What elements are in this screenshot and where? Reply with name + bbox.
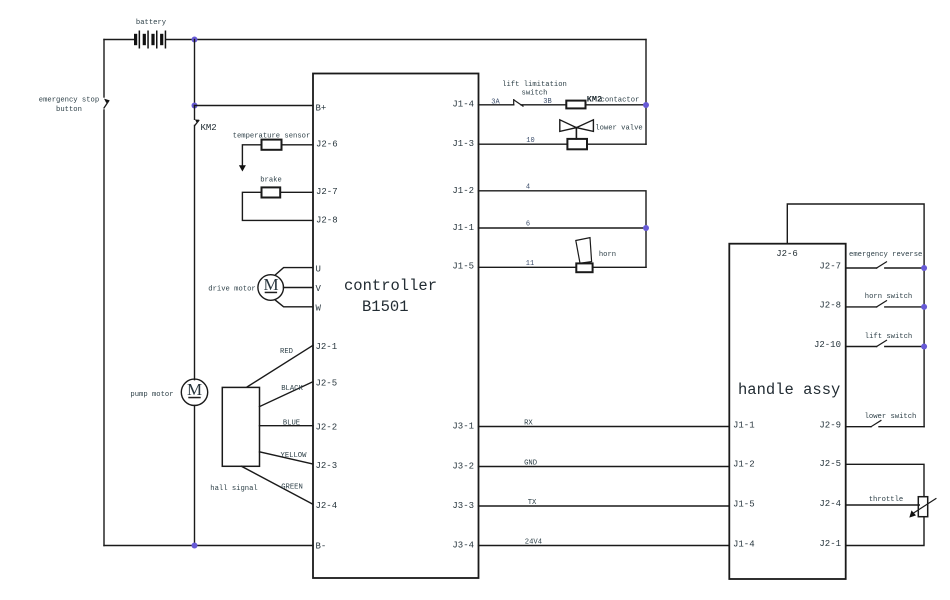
svg-text:lift limitation: lift limitation: [502, 81, 567, 89]
svg-text:J2-1: J2-1: [316, 342, 338, 352]
svg-text:J2-5: J2-5: [819, 459, 841, 469]
emergency stop button: [104, 99, 109, 546]
handle right pin labels: [814, 262, 841, 550]
svg-text:J1-5: J1-5: [733, 499, 755, 509]
wire J3-1 RX: [479, 426, 730, 428]
wire: right rail top: [645, 40, 647, 145]
wire RED: [247, 345, 313, 387]
svg-text:B1501: B1501: [362, 298, 409, 316]
wire BLUE: [260, 425, 314, 427]
hall signal box: [222, 387, 259, 466]
svg-text:hall signal: hall signal: [210, 485, 257, 493]
battery: [104, 31, 195, 49]
svg-text:J2-10: J2-10: [814, 340, 841, 350]
svg-text:BLACK: BLACK: [281, 385, 303, 393]
horn switch: [846, 301, 924, 307]
drive motor: [258, 268, 313, 307]
wire GREEN: [242, 466, 314, 504]
svg-text:horn switch: horn switch: [865, 293, 912, 301]
svg-text:M: M: [263, 275, 278, 294]
svg-text:B+: B+: [316, 104, 327, 114]
throttle wiper arrowhead: [909, 510, 916, 517]
svg-text:10: 10: [526, 137, 534, 145]
wire: top rail battery to right: [195, 39, 647, 41]
svg-text:6: 6: [526, 221, 530, 229]
lower valve: [479, 120, 647, 149]
svg-text:emergency stop: emergency stop: [39, 97, 99, 105]
node: [921, 344, 927, 350]
svg-text:J1-2: J1-2: [733, 459, 755, 469]
svg-text:pump motor: pump motor: [130, 391, 173, 399]
svg-text:switch: switch: [522, 90, 548, 98]
wire: B+ to controller: [195, 105, 314, 107]
throttle: [846, 464, 936, 545]
svg-text:lower valve: lower valve: [595, 125, 642, 133]
svg-text:J2-6: J2-6: [316, 139, 338, 149]
svg-text:J1-4: J1-4: [452, 99, 474, 109]
KM2 contactor label: [587, 95, 640, 105]
svg-text:J3-1: J3-1: [452, 421, 474, 431]
svg-text:4: 4: [526, 184, 530, 192]
svg-text:lower switch: lower switch: [865, 413, 917, 421]
svg-text:handle assy: handle assy: [738, 381, 840, 399]
svg-text:KM2: KM2: [201, 123, 217, 133]
svg-text:J1-1: J1-1: [452, 223, 474, 233]
svg-text:U: U: [316, 265, 321, 275]
svg-text:J2-6: J2-6: [776, 249, 798, 259]
svg-text:GND: GND: [524, 460, 537, 468]
svg-text:TX: TX: [528, 499, 537, 507]
svg-text:lift switch: lift switch: [865, 333, 912, 341]
svg-text:J2-7: J2-7: [316, 187, 338, 197]
svg-text:J2-1: J2-1: [819, 539, 841, 549]
svg-text:3A: 3A: [491, 98, 500, 106]
svg-text:B-: B-: [316, 541, 327, 551]
node: B+ junction: [192, 103, 198, 109]
wire J1-1: [479, 227, 647, 229]
controller U1 box: [313, 74, 479, 579]
svg-text:J2-4: J2-4: [819, 499, 841, 509]
wire: B- bottom rail: [104, 545, 313, 547]
node: B- junction: [192, 543, 198, 549]
svg-text:battery: battery: [136, 19, 167, 27]
svg-text:V: V: [316, 284, 322, 294]
svg-text:J3-3: J3-3: [452, 501, 474, 511]
svg-text:J3-4: J3-4: [452, 540, 474, 550]
wire: handle top loop: [787, 204, 924, 427]
temperature sensor R: [242, 140, 313, 166]
wire J3-4 24V4: [479, 545, 730, 547]
arrow down: [239, 165, 246, 171]
svg-text:brake: brake: [260, 177, 282, 185]
controller left pin labels: [316, 104, 338, 552]
wire YELLOW: [260, 452, 314, 464]
svg-text:11: 11: [526, 260, 534, 268]
svg-text:J2-9: J2-9: [819, 420, 841, 430]
svg-text:J2-5: J2-5: [316, 379, 338, 389]
handle left pin labels: [733, 420, 755, 549]
svg-text:throttle: throttle: [869, 496, 904, 504]
wire BLACK: [260, 382, 314, 407]
node: [921, 265, 927, 271]
svg-text:YELLOW: YELLOW: [281, 452, 308, 460]
handle assy box: [729, 244, 845, 579]
svg-text:drive motor: drive motor: [208, 286, 255, 294]
emergency stop button label: [39, 97, 99, 115]
node: battery junction: [192, 37, 198, 43]
svg-text:J1-1: J1-1: [733, 420, 755, 430]
svg-text:RX: RX: [524, 420, 533, 428]
emergency reverse switch: [846, 262, 924, 268]
node: [921, 304, 927, 310]
controller right pin labels: [452, 99, 474, 550]
svg-text:J2-2: J2-2: [316, 423, 338, 433]
svg-text:emergency reverse: emergency reverse: [849, 251, 922, 259]
brake R: [242, 187, 313, 220]
wire: left drop to emergency stop: [103, 40, 105, 98]
svg-text:temperature sensor: temperature sensor: [233, 133, 311, 141]
svg-text:GREEN: GREEN: [281, 484, 303, 492]
svg-text:J1-3: J1-3: [452, 139, 474, 149]
svg-text:J2-7: J2-7: [819, 262, 841, 272]
svg-text:button: button: [56, 106, 82, 114]
svg-text:J1-2: J1-2: [452, 186, 474, 196]
svg-text:J1-5: J1-5: [452, 262, 474, 272]
svg-text:M: M: [187, 380, 202, 399]
svg-text:J2-4: J2-4: [316, 501, 338, 511]
wire: B+ branch vertical: [194, 40, 196, 106]
KM2 contactor coil: [566, 101, 585, 109]
horn: [479, 238, 647, 273]
svg-text:3B: 3B: [543, 98, 551, 106]
svg-text:controller: controller: [344, 277, 437, 295]
lift limitation switch: [479, 100, 567, 107]
lift switch: [846, 340, 924, 346]
svg-text:RED: RED: [280, 348, 293, 356]
pump motor: [181, 379, 207, 545]
svg-text:24V4: 24V4: [525, 539, 542, 547]
svg-text:J2-8: J2-8: [819, 300, 841, 310]
lower switch: [846, 421, 924, 427]
node: J1-1 junction: [643, 225, 649, 231]
KM2 switch: [195, 106, 200, 380]
svg-text:J2-8: J2-8: [316, 215, 338, 225]
svg-text:contactor: contactor: [601, 97, 640, 105]
wire J3-3 TX: [479, 505, 730, 507]
svg-text:J2-3: J2-3: [316, 461, 338, 471]
svg-text:J1-4: J1-4: [733, 539, 755, 549]
svg-text:W: W: [316, 304, 322, 314]
svg-text:J3-2: J3-2: [452, 461, 474, 471]
svg-text:horn: horn: [599, 251, 616, 259]
svg-text:BLUE: BLUE: [283, 420, 300, 428]
node: KM2 rail junction: [643, 102, 649, 108]
wire J1-2 loop: [479, 191, 647, 267]
wire J3-2 GND: [479, 466, 730, 468]
